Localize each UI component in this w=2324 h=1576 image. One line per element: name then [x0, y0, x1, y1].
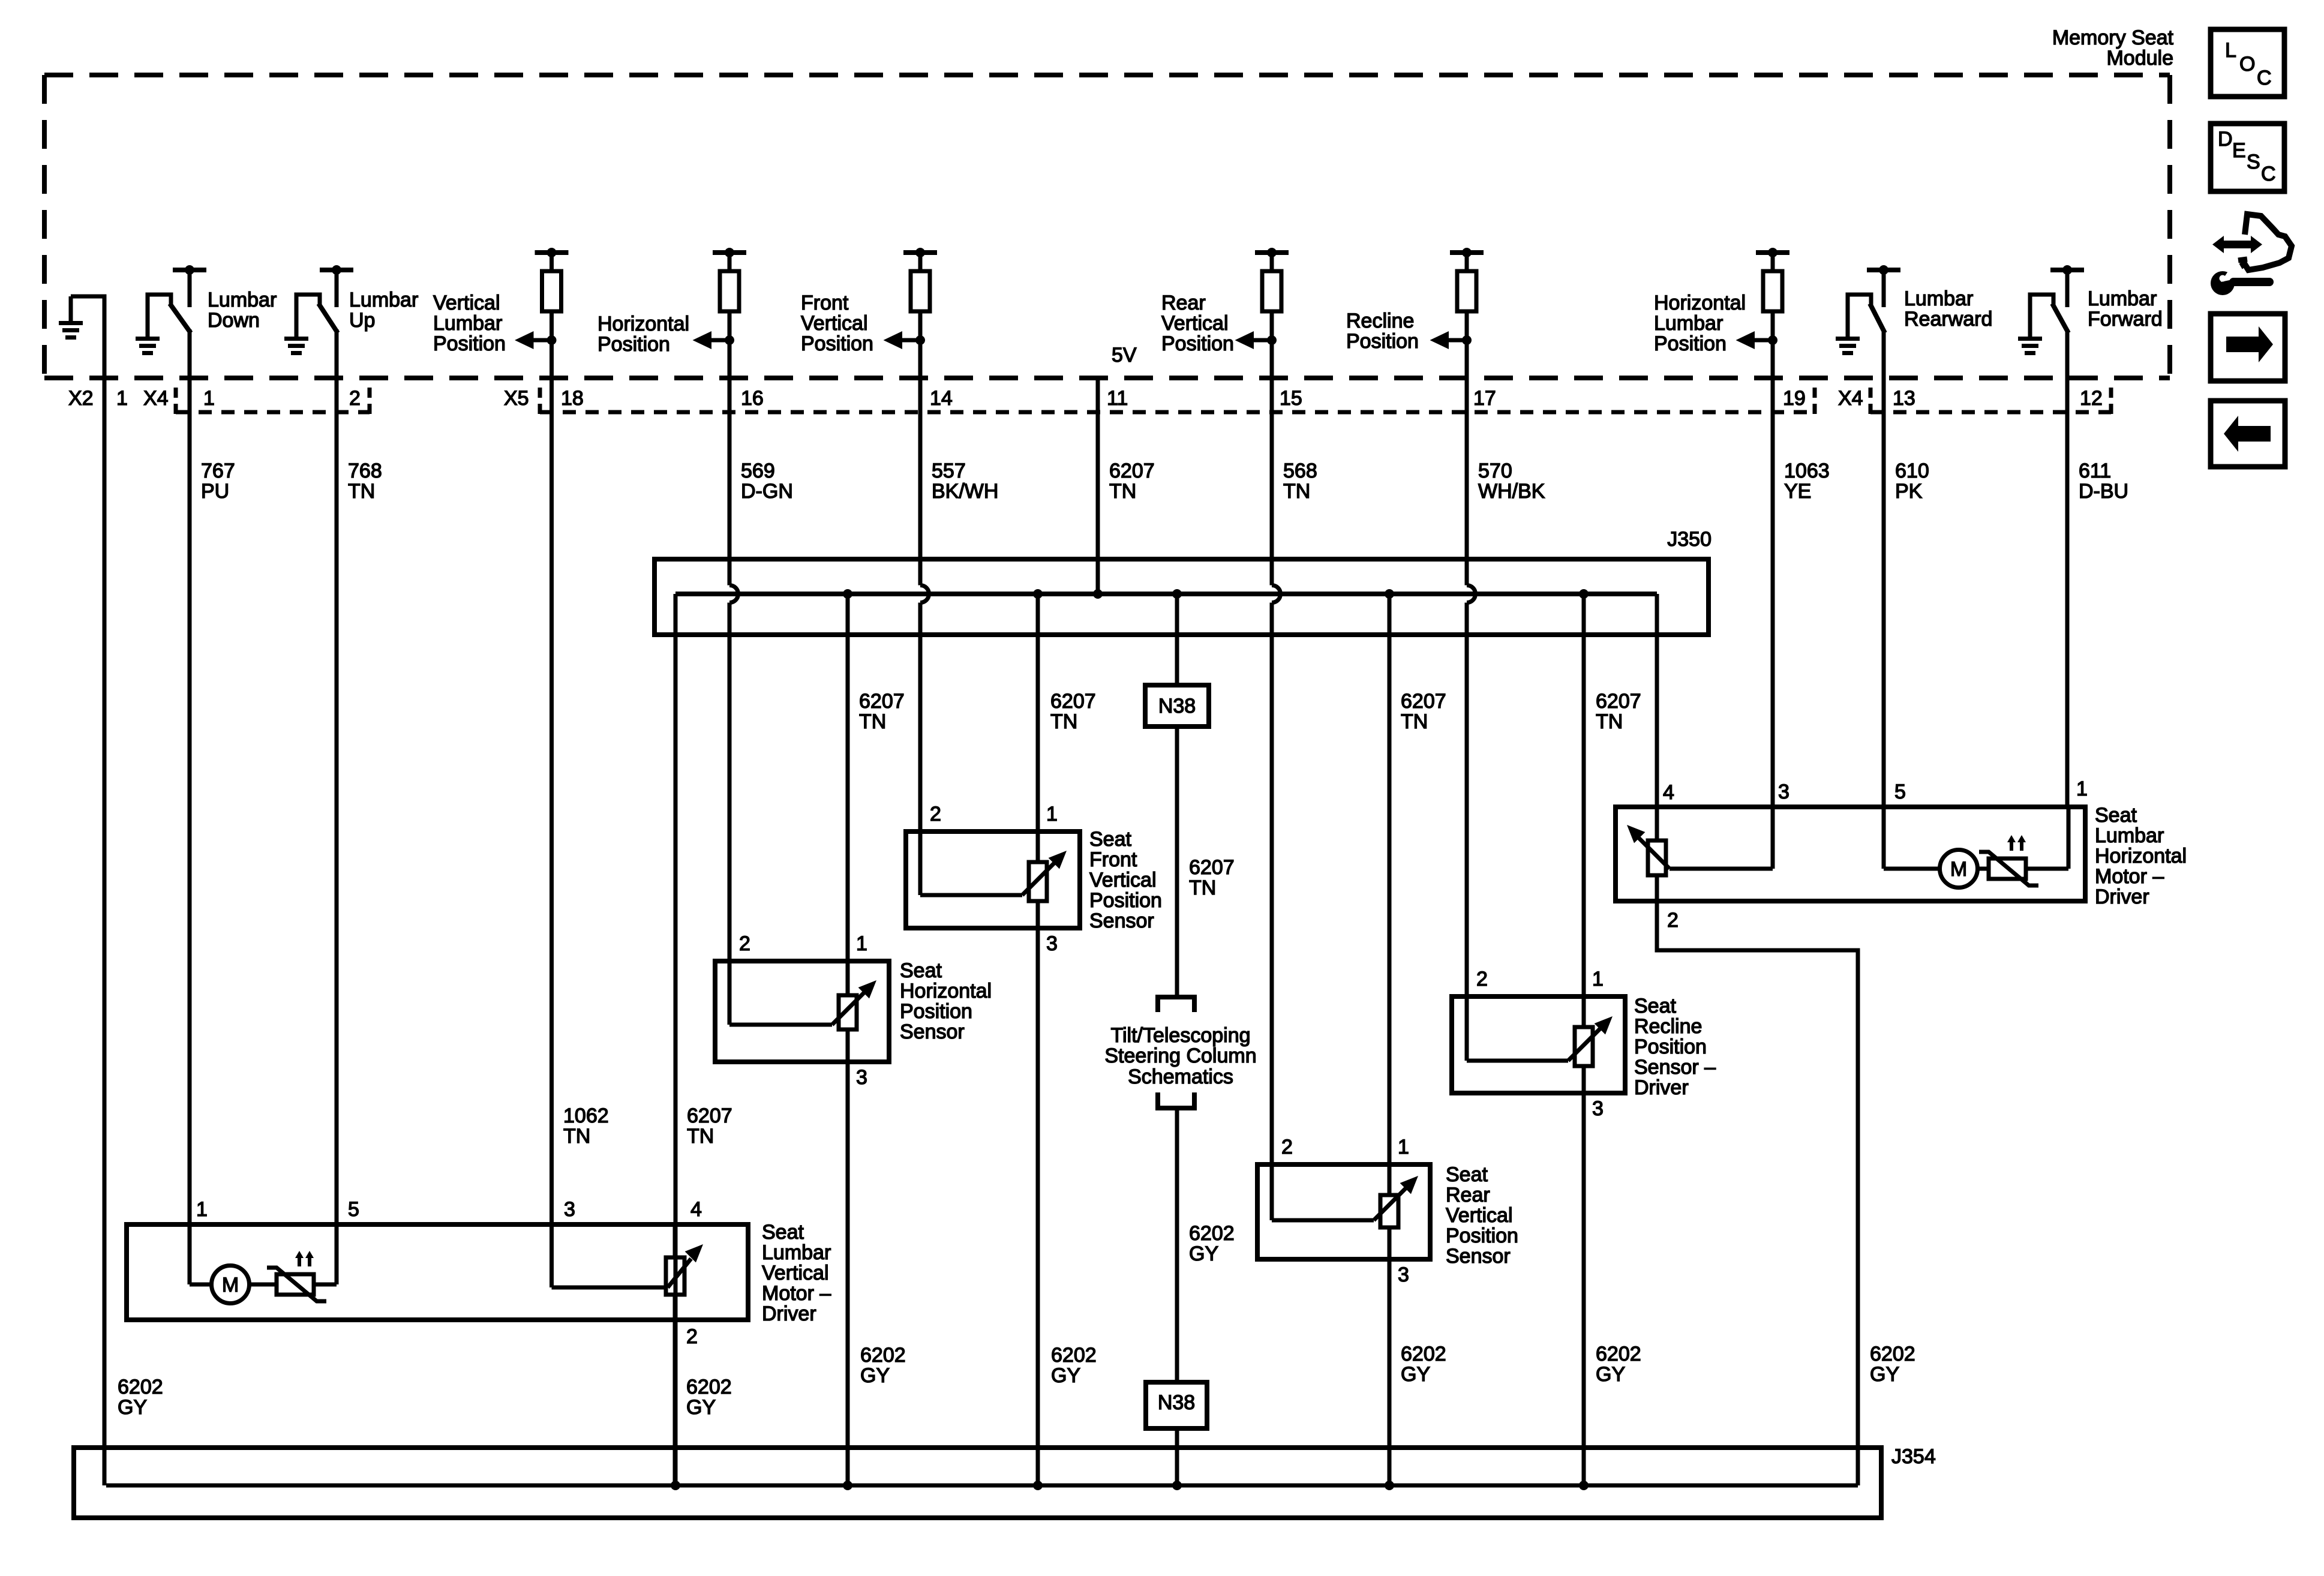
svg-text:1: 1 [1592, 968, 1604, 990]
Seat Recline Position Sensor - Driver box [1452, 996, 1625, 1093]
svg-text:6207: 6207 [1189, 856, 1235, 879]
svg-text:Lumbar: Lumbar [349, 289, 418, 311]
svg-text:L: L [2225, 39, 2236, 62]
svg-text:Position: Position [1161, 332, 1234, 355]
Seat Rear Vertical Position Sensor 5V/ground wire pin 1-3 [1388, 1164, 1392, 1259]
wire 569 D-GN (pin 16 to J350 and sensor) [728, 378, 732, 586]
ground G1 (X2 pin 1) [69, 296, 73, 322]
wire 570 WH/BK (pin 17 to J350 and sensor) [1465, 378, 1469, 586]
svg-text:GY: GY [1051, 1364, 1080, 1387]
svg-text:Memory Seat: Memory Seat [2052, 26, 2174, 49]
svg-text:TN: TN [1283, 480, 1310, 503]
icon previous page arrow box [2211, 401, 2285, 467]
svg-text:Position: Position [1654, 332, 1727, 355]
svg-text:610: 610 [1895, 460, 1929, 482]
svg-text:Sensor: Sensor [1446, 1245, 1511, 1268]
svg-text:Lumbar: Lumbar [762, 1241, 831, 1264]
svg-text:Front: Front [801, 292, 849, 314]
wire J350 tap to N38 [1175, 594, 1179, 685]
motor M2 Seat Lumbar Horizontal Motor - Driver box [1616, 807, 2085, 901]
svg-text:Vertical: Vertical [433, 292, 500, 314]
svg-text:19: 19 [1783, 387, 1806, 410]
motor M2 thermistor [1989, 858, 2026, 879]
svg-text:6207: 6207 [859, 690, 905, 713]
switch Lumbar Rearward [1848, 295, 1871, 337]
icon fabric repair outline [2237, 214, 2292, 270]
svg-text:Horizontal: Horizontal [900, 980, 992, 1002]
wire motor M2 pin2 jog to J354 [1657, 901, 1858, 1485]
svg-text:GY: GY [686, 1396, 716, 1419]
svg-text:Position: Position [1089, 889, 1162, 912]
svg-text:WH/BK: WH/BK [1478, 480, 1545, 503]
wire 5V (pin 11 to J350 bus) [1096, 378, 1100, 594]
svg-text:TN: TN [1109, 480, 1136, 503]
svg-text:2: 2 [930, 803, 941, 825]
svg-text:6207: 6207 [1401, 690, 1446, 713]
Seat Rear Vertical Position Sensor wiper inner wire [1272, 1218, 1374, 1223]
J350 hop at 570 wire [1467, 586, 1476, 603]
Seat Recline Position Sensor - Driver 5V/ground wire pin 1-3 [1582, 996, 1586, 1093]
Seat Rear Vertical Position Sensor signal wire pin 2 [1270, 1164, 1274, 1220]
svg-text:Position: Position [597, 333, 670, 356]
svg-text:Seat: Seat [1089, 828, 1131, 851]
wire J350 left tap to J354 [674, 594, 678, 1485]
svg-text:TN: TN [348, 480, 375, 503]
wire J350 tap to recline sensor pin 1 [1582, 594, 1586, 996]
svg-text:Lumbar: Lumbar [2095, 824, 2164, 847]
resistor R4 Rear Vertical Position [1255, 250, 1289, 255]
svg-text:1063: 1063 [1784, 460, 1830, 482]
J350 bus wire [675, 592, 1657, 596]
svg-text:Motor –: Motor – [2095, 865, 2164, 888]
svg-text:C: C [2257, 67, 2272, 89]
svg-text:GY: GY [1189, 1242, 1218, 1265]
svg-text:5V: 5V [1112, 344, 1137, 367]
svg-text:PK: PK [1895, 480, 1923, 503]
svg-text:Vertical: Vertical [1446, 1204, 1513, 1227]
J354 junction dots [671, 1481, 680, 1490]
svg-text:2: 2 [1281, 1136, 1293, 1158]
svg-text:GY: GY [860, 1364, 890, 1387]
svg-text:2: 2 [739, 932, 750, 955]
svg-text:2: 2 [1667, 909, 1679, 932]
svg-text:GY: GY [1870, 1363, 1899, 1386]
Seat Front Vertical Position Sensor potentiometer [1029, 862, 1047, 901]
wire N38 to off-page bracket [1175, 727, 1179, 996]
Memory Seat Module dashed box [44, 73, 2170, 77]
Seat Rear Vertical Position Sensor potentiometer [1380, 1195, 1398, 1227]
wire motor M1 pin2 to J354 [673, 1320, 677, 1485]
svg-text:569: 569 [741, 460, 775, 482]
svg-text:1: 1 [1398, 1136, 1409, 1158]
motor M1 thermistor [277, 1274, 314, 1295]
svg-text:Recline: Recline [1346, 310, 1414, 332]
wire horizontal sensor pin 3 to J354 [846, 1062, 850, 1485]
svg-text:1: 1 [856, 932, 867, 955]
svg-text:14: 14 [930, 387, 953, 410]
svg-text:X4: X4 [143, 387, 169, 410]
svg-text:2: 2 [686, 1325, 698, 1348]
icon DESC box [2211, 124, 2284, 191]
svg-text:Tilt/Telescoping: Tilt/Telescoping [1110, 1024, 1250, 1047]
svg-text:15: 15 [1280, 387, 1302, 410]
connector N38 upper box [1145, 685, 1209, 727]
connector pin row dotted line X4 right [1869, 388, 1873, 415]
resistor R6 Horizontal Lumbar Position [1756, 250, 1789, 255]
icon previous page arrow [2236, 426, 2271, 442]
motor M2 M circle [1940, 850, 1978, 888]
svg-text:6207: 6207 [1109, 460, 1155, 482]
wire bracket to N38 lower [1175, 1108, 1179, 1382]
wire J350 tap to front vertical sensor pin 1 [1036, 594, 1040, 831]
svg-text:M: M [1950, 858, 1967, 881]
svg-text:17: 17 [1473, 387, 1496, 410]
svg-text:Lumbar: Lumbar [208, 289, 277, 311]
svg-text:E: E [2232, 139, 2246, 162]
svg-text:Lumbar: Lumbar [2088, 287, 2157, 310]
Seat Horizontal Position Sensor wiper inner wire [729, 1023, 832, 1027]
wire front vertical sensor pin 3 to J354 [1036, 928, 1040, 1485]
svg-text:6207: 6207 [1596, 690, 1641, 713]
wire N38 lower to J354 [1175, 1428, 1179, 1485]
connector pin row dotted line X5 [538, 388, 542, 415]
svg-text:18: 18 [561, 387, 584, 410]
svg-text:Up: Up [349, 309, 375, 332]
svg-text:Driver: Driver [1634, 1076, 1689, 1099]
wire J350 tap to rear vertical sensor pin 1 [1388, 594, 1392, 1164]
motor M2 wire pin5 down [1882, 807, 1886, 869]
svg-text:1: 1 [2076, 778, 2088, 800]
svg-text:6202: 6202 [686, 1376, 732, 1398]
Seat Rear Vertical Position Sensor box [1257, 1164, 1430, 1259]
svg-text:4: 4 [1663, 781, 1674, 804]
svg-text:1062: 1062 [563, 1104, 609, 1127]
svg-text:11: 11 [1107, 387, 1128, 410]
connector J354 box [74, 1448, 1881, 1518]
motor M1 wire pin3 to wiper [550, 1224, 554, 1287]
svg-text:PU: PU [201, 480, 229, 503]
svg-text:Sensor: Sensor [900, 1020, 965, 1043]
svg-text:Lumbar: Lumbar [1654, 312, 1723, 335]
svg-text:Recline: Recline [1634, 1015, 1702, 1038]
svg-text:GY: GY [1401, 1363, 1430, 1386]
motor M2 wiper arrow [1627, 825, 1645, 843]
svg-text:4: 4 [690, 1198, 702, 1221]
J350 hop at 569 wire [729, 586, 738, 603]
svg-text:TN: TN [563, 1125, 590, 1148]
J350 junction dots [843, 589, 852, 599]
switch Lumbar Forward [2030, 295, 2053, 337]
svg-text:J350: J350 [1667, 528, 1712, 551]
wire X2 ground to pin [71, 296, 104, 379]
svg-text:TN: TN [1401, 710, 1428, 733]
J350 hop at 568 wire [1272, 586, 1281, 603]
svg-text:Vertical: Vertical [801, 312, 868, 335]
svg-text:3: 3 [1592, 1097, 1604, 1120]
svg-text:3: 3 [564, 1198, 575, 1221]
svg-text:3: 3 [856, 1066, 867, 1089]
svg-text:6202: 6202 [1870, 1343, 1915, 1365]
icon next page arrow box [2211, 314, 2285, 381]
svg-text:611: 611 [2079, 460, 2111, 482]
svg-text:Rearward: Rearward [1904, 308, 1992, 331]
Seat Rear Vertical Position Sensor wiper arrow [1374, 1186, 1408, 1220]
icon fabric repair double arrow [2223, 241, 2251, 248]
svg-text:6202: 6202 [1189, 1222, 1235, 1245]
motor M1 wire pin1 down to motor [188, 1224, 192, 1284]
Seat Horizontal Position Sensor potentiometer [839, 995, 857, 1029]
svg-text:Horizontal: Horizontal [1654, 292, 1746, 314]
svg-text:Position: Position [1446, 1224, 1518, 1247]
connector N38 lower box [1146, 1382, 1207, 1428]
svg-text:Horizontal: Horizontal [597, 313, 689, 335]
svg-text:Position: Position [900, 1000, 972, 1023]
motor M1 wire pin4 through pot to pin2 [673, 1224, 677, 1257]
svg-text:Driver: Driver [762, 1302, 816, 1325]
svg-text:Driver: Driver [2095, 885, 2149, 908]
svg-text:TN: TN [687, 1125, 714, 1148]
off-page bracket lower [1158, 1092, 1194, 1108]
wire 611 D-BU (pin 12 to horizontal motor pin 1) [2065, 378, 2070, 807]
svg-text:BK/WH: BK/WH [932, 480, 998, 503]
svg-text:O: O [2239, 53, 2255, 76]
wire 610 PK (pin 13 to horizontal motor pin 5) [1882, 378, 1886, 807]
svg-text:N38: N38 [1158, 695, 1196, 718]
Seat Recline Position Sensor - Driver wiper inner wire [1467, 1059, 1568, 1063]
Seat Horizontal Position Sensor wiper arrow [832, 990, 866, 1025]
svg-text:Vertical: Vertical [1089, 869, 1157, 891]
icon LOC box [2211, 29, 2284, 97]
svg-text:Position: Position [1346, 330, 1419, 353]
svg-text:X5: X5 [504, 387, 529, 410]
svg-text:GY: GY [118, 1396, 147, 1419]
svg-text:570: 570 [1478, 460, 1512, 482]
svg-text:Steering Column: Steering Column [1104, 1044, 1256, 1067]
svg-text:6202: 6202 [1596, 1343, 1641, 1365]
svg-text:3: 3 [1046, 932, 1058, 955]
resistor R2 Horizontal Position [713, 250, 746, 255]
svg-text:TN: TN [1189, 876, 1216, 899]
Seat Recline Position Sensor - Driver signal wire pin 2 [1465, 996, 1469, 1061]
wire 767 PU (pin 1 X4 to motor pin 1) [188, 378, 192, 1224]
connector J350 box [654, 559, 1709, 635]
motor M1 potentiometer [666, 1257, 684, 1295]
Seat Front Vertical Position Sensor wiper inner wire [920, 893, 1022, 897]
Seat Horizontal Position Sensor 5V/ground wire pin 1-3 [846, 961, 850, 1062]
svg-text:557: 557 [932, 460, 966, 482]
svg-text:M: M [222, 1274, 239, 1296]
motor M1 wire motor to thermistor [250, 1283, 277, 1287]
icon next page arrow [2226, 337, 2261, 352]
Seat Front Vertical Position Sensor box [906, 831, 1080, 928]
wire 557 BK/WH (pin 14 to J350 and sensor) [918, 378, 923, 586]
svg-text:2: 2 [1476, 968, 1488, 990]
Seat Horizontal Position Sensor box [715, 961, 889, 1062]
svg-text:Down: Down [208, 309, 260, 332]
svg-text:Forward: Forward [2088, 308, 2163, 331]
off-page bracket upper [1158, 997, 1194, 1012]
svg-text:Sensor: Sensor [1089, 909, 1154, 932]
motor M2 potentiometer [1648, 840, 1666, 875]
svg-text:5: 5 [348, 1198, 359, 1221]
Seat Front Vertical Position Sensor 5V/ground wire pin 1-3 [1036, 831, 1040, 928]
Seat Recline Position Sensor - Driver wiper arrow [1568, 1026, 1602, 1061]
svg-text:D: D [2218, 128, 2233, 151]
J354 bus wire [106, 1484, 1858, 1488]
motor M2 wire pin3 to wiper [1771, 807, 1775, 869]
svg-text:Position: Position [1634, 1035, 1707, 1058]
svg-text:TN: TN [1050, 710, 1077, 733]
svg-text:D-GN: D-GN [741, 480, 793, 503]
svg-text:568: 568 [1283, 460, 1317, 482]
wire rear vertical sensor pin 3 to J354 [1388, 1259, 1392, 1485]
J350 hop at 557 wire [920, 586, 929, 603]
svg-text:1: 1 [116, 387, 128, 410]
svg-text:N38: N38 [1158, 1391, 1195, 1414]
svg-text:X2: X2 [68, 387, 94, 410]
motor M1 wiper arrow [659, 1286, 668, 1290]
motor M1 wire thermistor to pin5 [314, 1283, 337, 1287]
svg-text:6207: 6207 [687, 1104, 732, 1127]
motor M2 wire thermistor to pin1 [2026, 867, 2068, 871]
resistor R1 Vertical Lumbar Position [535, 250, 569, 255]
svg-text:D-BU: D-BU [2079, 480, 2128, 503]
svg-text:Seat: Seat [1634, 995, 1676, 1017]
svg-text:1: 1 [203, 387, 215, 410]
svg-text:Horizontal: Horizontal [2095, 845, 2187, 867]
svg-text:Vertical: Vertical [762, 1262, 829, 1284]
svg-text:3: 3 [1778, 781, 1789, 803]
switch Lumbar Up [296, 295, 320, 337]
svg-text:Module: Module [2106, 47, 2173, 70]
svg-text:5: 5 [1894, 781, 1906, 803]
svg-text:767: 767 [201, 460, 235, 482]
svg-text:6207: 6207 [1050, 690, 1096, 713]
motor M2 wire pin4 through pot to pin2 [1655, 807, 1659, 840]
svg-text:6202: 6202 [860, 1344, 906, 1367]
motor M2 wire motor to thermistor [1978, 867, 1989, 871]
svg-text:Position: Position [801, 332, 873, 355]
connector pin row dotted line X4 left [174, 388, 178, 415]
resistor R5 Recline Position [1450, 250, 1484, 255]
icon wrench [2211, 271, 2235, 295]
motor M1 Seat Lumbar Vertical Motor - Driver box [127, 1224, 748, 1320]
svg-text:2: 2 [349, 387, 361, 410]
svg-text:1: 1 [1046, 803, 1058, 825]
svg-text:Motor –: Motor – [762, 1282, 831, 1305]
svg-text:12: 12 [2080, 387, 2103, 410]
svg-text:TN: TN [1596, 710, 1623, 733]
svg-text:3: 3 [1398, 1263, 1409, 1286]
resistor R3 Front Vertical Position [903, 250, 937, 255]
svg-text:X4: X4 [1838, 387, 1863, 410]
svg-text:6202: 6202 [1401, 1343, 1446, 1365]
Seat Horizontal Position Sensor signal wire pin 2 [728, 961, 732, 1025]
wire recline sensor pin 3 to J354 [1582, 1093, 1586, 1485]
svg-text:Schematics: Schematics [1128, 1065, 1233, 1088]
svg-text:C: C [2261, 163, 2276, 185]
svg-text:Rear: Rear [1446, 1184, 1490, 1206]
svg-text:13: 13 [1893, 387, 1915, 410]
svg-text:YE: YE [1784, 480, 1811, 503]
svg-text:Front: Front [1089, 848, 1137, 871]
Seat Recline Position Sensor - Driver potentiometer [1575, 1027, 1593, 1066]
svg-text:16: 16 [741, 387, 764, 410]
svg-text:768: 768 [348, 460, 382, 482]
svg-text:Seat: Seat [1446, 1163, 1488, 1186]
wire J350 tap to horizontal sensor pin 1 [846, 594, 850, 961]
svg-text:S: S [2247, 151, 2260, 173]
svg-text:Sensor –: Sensor – [1634, 1056, 1716, 1079]
wire 1063 YE (pin 19 to horizontal motor pin 3) [1771, 378, 1775, 807]
switch Lumbar Down [148, 295, 171, 337]
svg-text:TN: TN [859, 710, 886, 733]
wire 1062 TN (pin 18 to motor pin 3) [550, 378, 554, 1224]
wire X2 pin1 to J354 [103, 378, 107, 1485]
svg-text:6202: 6202 [118, 1376, 163, 1398]
svg-text:Rear: Rear [1161, 292, 1206, 314]
svg-text:Seat: Seat [2095, 804, 2137, 827]
Seat Front Vertical Position Sensor wiper arrow [1022, 861, 1056, 895]
svg-text:Lumbar: Lumbar [1904, 287, 1973, 310]
svg-text:J354: J354 [1891, 1445, 1936, 1468]
motor M1 M circle [212, 1266, 250, 1304]
wire 768 TN (pin 2 X4 to motor pin 5) [335, 378, 339, 1224]
wire J350 right end to horizontal motor pin 4 [1655, 594, 1659, 807]
svg-text:6202: 6202 [1051, 1344, 1097, 1367]
svg-text:Lumbar: Lumbar [433, 312, 502, 335]
svg-text:Seat: Seat [762, 1221, 804, 1244]
svg-text:GY: GY [1596, 1363, 1625, 1386]
svg-text:Seat: Seat [900, 959, 942, 982]
Seat Front Vertical Position Sensor signal wire pin 2 [918, 831, 923, 895]
svg-text:1: 1 [196, 1198, 208, 1221]
wire 568 TN (pin 15 to J350 and sensor) [1270, 378, 1274, 586]
svg-text:Vertical: Vertical [1161, 312, 1229, 335]
svg-text:Position: Position [433, 332, 506, 355]
